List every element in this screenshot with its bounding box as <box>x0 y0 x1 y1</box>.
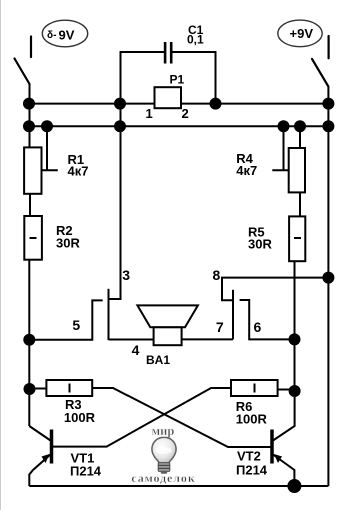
wire R6 to VT1 base <box>52 388 232 447</box>
junction dot rail2 R1 tap <box>41 120 53 132</box>
VT2 emitter <box>273 455 294 487</box>
svg-text:8: 8 <box>213 267 221 283</box>
svg-text:100R: 100R <box>236 412 268 427</box>
svg-text:BA1: BA1 <box>146 353 170 367</box>
svg-text:0,1: 0,1 <box>187 33 204 47</box>
resistor R4 <box>289 148 305 192</box>
R5 power mark <box>294 237 301 239</box>
tap wire R1 <box>42 126 58 170</box>
svg-text:7: 7 <box>216 319 224 335</box>
label R3 <box>64 397 96 425</box>
resistor R3 <box>46 380 92 396</box>
switch SA2 right <box>312 36 329 87</box>
VT2 emitter arrow <box>274 454 282 463</box>
resistor R2 <box>24 216 42 260</box>
R3 power mark <box>69 384 71 393</box>
junction dot rail2 right bus <box>322 120 334 132</box>
wire R4 feed <box>299 126 301 148</box>
VT2 collector <box>273 391 295 441</box>
wire R4-R5 <box>299 192 301 216</box>
svg-text:δ-: δ- <box>47 30 56 41</box>
label VT2 <box>236 449 268 478</box>
junction dot node5 <box>23 334 35 346</box>
R6 power mark <box>254 384 256 393</box>
svg-text:2: 2 <box>182 106 189 121</box>
junction dot rail2 left bus <box>23 120 35 132</box>
svg-text:П214: П214 <box>70 464 102 479</box>
wire node 5 <box>29 300 102 339</box>
svg-text:4к7: 4к7 <box>236 163 257 178</box>
junction dot node6 <box>289 333 301 345</box>
capacitor C1 <box>164 42 173 64</box>
junction dot R3 left <box>24 383 36 395</box>
svg-text:мир: мир <box>152 424 175 438</box>
wire R5 bottom to VT2 collector node <box>294 261 296 391</box>
resistor R5 <box>289 216 305 261</box>
junction dot rail2 R4 tap <box>278 120 290 132</box>
wire C1 right leg <box>173 52 216 104</box>
speaker BA1 cone <box>137 305 198 327</box>
wire R6 right stub <box>278 389 295 391</box>
wire node 4 vertical <box>108 289 110 340</box>
svg-text:+9V: +9V <box>290 26 314 41</box>
wire right bus <box>327 87 329 486</box>
svg-text:6: 6 <box>254 319 262 335</box>
label R2 <box>56 223 80 251</box>
junction dot rail2 node3 <box>114 120 126 132</box>
VT1 emitter arrow <box>42 454 50 463</box>
svg-text:3: 3 <box>122 267 130 283</box>
wire rail 1 <box>29 103 328 105</box>
R2 power mark <box>30 237 37 239</box>
power terminal -9V ellipse <box>42 20 87 47</box>
resistor R6 <box>231 380 278 396</box>
wire node 7 vertical <box>232 290 234 340</box>
wire R1-R2 <box>29 194 31 216</box>
junction dot rail2 R4 feed <box>294 120 306 132</box>
svg-text:5: 5 <box>72 317 80 333</box>
wire 4 to speaker <box>109 339 154 341</box>
transistor VT1 base bar <box>50 430 54 464</box>
wire left bus lower <box>28 260 30 426</box>
svg-text:П214: П214 <box>236 463 268 478</box>
wire rail 2 <box>29 125 328 127</box>
switch SA1 left <box>15 37 32 85</box>
label C1 value <box>187 23 204 47</box>
power terminal +9V ellipse <box>278 20 322 47</box>
wire node 6 <box>240 300 295 339</box>
svg-text:P1: P1 <box>170 73 185 87</box>
svg-text:1: 1 <box>146 106 153 121</box>
junction dot rail1 left <box>23 98 35 110</box>
junction dot rail1 right bus <box>322 98 334 110</box>
speaker BA1 body <box>154 327 182 345</box>
node R3-left <box>30 388 47 390</box>
label R4 <box>236 151 257 178</box>
wire node 8 <box>222 278 328 301</box>
label VT1 <box>70 451 102 479</box>
svg-text:9V: 9V <box>59 28 75 43</box>
label R6 <box>236 399 268 427</box>
tap wire R4 <box>272 126 289 170</box>
label R5 <box>248 225 272 252</box>
transformer primary P1 <box>155 87 182 108</box>
wire left bus top <box>29 84 31 147</box>
junction dot rail1 C1 left <box>114 98 126 110</box>
svg-text:100R: 100R <box>64 410 96 425</box>
svg-text:4к7: 4к7 <box>68 164 89 179</box>
svg-text:самоделок: самоделок <box>131 471 195 485</box>
transistor VT2 base bar <box>270 430 274 464</box>
junction dot emitter VT2 bottom <box>287 479 301 493</box>
label R1 <box>68 152 89 179</box>
wire bottom rail <box>29 485 328 487</box>
VT1 emitter <box>29 455 50 487</box>
wire 7 to speaker <box>182 338 233 340</box>
VT1 collector <box>29 426 50 441</box>
watermark bulb <box>152 437 176 474</box>
wire R3 to VT2 base <box>92 388 270 447</box>
svg-text:30R: 30R <box>56 236 80 251</box>
wire node 3 jog <box>109 298 121 300</box>
wire C1 left leg <box>121 52 165 300</box>
junction dot rail1 C1 right <box>210 98 222 110</box>
svg-text:30R: 30R <box>248 237 272 252</box>
resistor R1 <box>24 147 41 193</box>
svg-text:VT2: VT2 <box>237 449 261 464</box>
left edge faint border <box>0 0 2 510</box>
junction dot R6 right <box>289 385 301 397</box>
svg-text:4: 4 <box>132 342 140 358</box>
junction dot node8 bus <box>322 272 334 284</box>
